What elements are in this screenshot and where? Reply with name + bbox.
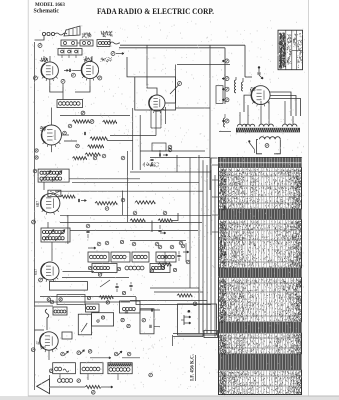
vertical wire x140.2 — [139, 115, 141, 170]
oscillator coil box B1 — [88, 252, 109, 262]
wire bus A drop at x245 — [244, 45, 246, 77]
wire y128 pins — [151, 127, 161, 129]
speaker line to right — [50, 386, 86, 388]
bus bend 2 — [130, 301, 207, 334]
filter choke L10 — [260, 137, 281, 140]
output transformer box 2 — [80, 363, 103, 374]
long bus y178 — [69, 178, 140, 180]
svg-text:MODEL 1663: MODEL 1663 — [35, 3, 65, 8]
terminal bus contact 4 — [225, 98, 229, 102]
capacitor C9 and arrow — [150, 158, 153, 160]
ganged link dashed — [77, 42, 80, 44]
wire R15 right — [172, 213, 178, 221]
terminal above R15 — [163, 211, 167, 215]
terminal above R14 — [133, 211, 137, 215]
capacitor C19 pair — [149, 325, 151, 328]
terminal mid x170 — [168, 145, 172, 149]
wire V3 pin 2 — [155, 111, 157, 136]
junction box left of table — [204, 331, 218, 338]
wire long y115 — [60, 115, 130, 117]
trimmer box lower B5 — [92, 264, 117, 273]
wire bottom bus y358 — [122, 357, 140, 359]
scan noise speckle — [31, 20, 305, 390]
terminal row y244 c — [132, 242, 136, 246]
capacitor C8 — [83, 132, 85, 135]
power transformer secondary 1 — [259, 124, 273, 126]
parts table section lines — [219, 167, 302, 169]
tube designator smudge V4 — [40, 126, 46, 131]
vertical bus x199 long — [198, 155, 200, 288]
terminal cluster mr b — [170, 245, 174, 249]
bus bend group — [150, 288, 199, 334]
stamp box FADA service form — [278, 30, 303, 69]
shield box oscillator — [135, 77, 176, 110]
terminal cluster mr d — [186, 260, 190, 264]
terminal arrow row e — [127, 352, 131, 356]
stamp rotated text — [280, 33, 283, 68]
wire into box — [127, 57, 135, 77]
terminal 4 below V2 — [98, 76, 102, 80]
terminal above coil box x85 — [87, 296, 90, 299]
label twin gang cond — [101, 31, 112, 37]
wire bus drop x147 — [146, 45, 148, 77]
tube V2 6D6 IF amplifier — [81, 61, 98, 78]
terminal y268 a — [88, 266, 91, 269]
wire V8 down — [48, 350, 50, 360]
wire x190 long vertical — [189, 158, 191, 289]
terminal y268 d — [150, 269, 153, 272]
terminal y320 x122 — [121, 318, 124, 321]
resistor R4 — [103, 120, 117, 123]
terminal y299 x60 — [59, 298, 62, 301]
wire avc node — [64, 140, 77, 142]
tube V6 rectifier 80 — [251, 86, 270, 105]
terminal 2 below V1 — [61, 79, 65, 83]
terminal row y244 b — [105, 241, 109, 245]
tube designator smudge V6 — [250, 87, 255, 92]
terminal y268 c — [117, 267, 120, 270]
terminal R6 left — [63, 131, 67, 135]
vertical bus x207 long — [206, 165, 208, 301]
resistor R11 — [61, 195, 75, 198]
terminal x88 y226 — [86, 224, 90, 228]
wire drop from R14 — [151, 221, 153, 233]
wire V2 cathode down — [89, 79, 91, 86]
terminal y320 — [142, 318, 146, 322]
wire box top to bus — [147, 77, 157, 95]
band switch bus — [209, 45, 211, 190]
resistor R23 y202 — [135, 201, 155, 204]
tube V5 75 detector — [41, 194, 60, 213]
band switch S3 diagonal — [100, 280, 110, 287]
terminal y268 b — [98, 273, 101, 276]
arrow volume control — [116, 53, 124, 55]
vertical bus x211 — [210, 170, 212, 334]
capacitor C22 — [177, 254, 180, 256]
wire y157 x150-210 — [150, 157, 210, 159]
tube V4 6D6 first detector — [42, 125, 62, 145]
terminal x170 — [168, 148, 172, 152]
capacitor C12 arrow — [77, 199, 79, 202]
wire y172 long — [130, 171, 211, 173]
wire tube V2 grid caps — [85, 56, 87, 61]
arrow AVC to V1 — [64, 69, 69, 71]
terminal under R12 — [105, 207, 109, 211]
capacitor C18 — [150, 308, 152, 311]
terminal y292 — [122, 291, 125, 294]
terminal mid — [81, 111, 85, 115]
resistor R7 — [85, 153, 100, 156]
wire tube V4 cathode — [51, 145, 53, 152]
terminal left bus y157 — [35, 156, 38, 159]
tube V3 6A7 oscillator section — [149, 95, 165, 111]
junction box y313 — [92, 313, 114, 326]
label smudge mid — [143, 162, 159, 167]
terminal voice coil right — [77, 379, 81, 383]
wire V3 pin 4 — [165, 107, 167, 124]
terminal avc — [76, 144, 80, 148]
bus y215 — [60, 214, 211, 216]
wire V7 output right — [63, 271, 95, 273]
box lower-left portion — [140, 309, 154, 334]
resistor R20 speaker line — [85, 385, 100, 388]
wire curvy speaker field — [45, 309, 49, 330]
terminal in tone box — [149, 373, 153, 377]
terminal R3 right — [90, 120, 94, 124]
wire y135 mid — [110, 135, 156, 137]
coil stack x225 — [224, 118, 226, 127]
resistor R22 y297 — [99, 296, 113, 299]
bus y277 — [62, 277, 129, 279]
terminal below detector box — [50, 300, 54, 304]
parts table outer border — [219, 158, 302, 395]
terminal switch S1 — [178, 82, 182, 86]
terminal cluster mr a — [158, 245, 162, 249]
wire bus right top — [177, 64, 230, 66]
capacitor C20 with arrow — [258, 66, 260, 68]
wire top bus A — [120, 44, 245, 46]
wire stage bottom left — [50, 86, 63, 92]
terminal y268 e — [161, 266, 164, 269]
resistor R15 y220b — [158, 219, 172, 222]
capacitor C15 pair — [115, 285, 118, 287]
wire T3 top — [47, 222, 49, 228]
terminal in junction box — [101, 316, 104, 319]
wire y240 mid — [130, 240, 186, 242]
vertical bus x203 long — [202, 160, 204, 292]
terminal below speaker line — [92, 391, 96, 395]
resistor R14 y220 — [130, 219, 145, 222]
wire antenna to speaker horn — [55, 33, 67, 35]
output transformer box 3 with core — [108, 363, 132, 374]
wire stage box left vertical — [67, 215, 69, 244]
parts table band1 split line — [219, 162, 302, 164]
oscillator coil box B3 — [132, 252, 149, 262]
detector output box — [49, 282, 87, 291]
capacitor near x126 — [125, 311, 128, 313]
oscillator coil L1 — [97, 40, 110, 47]
vertical bus x215 — [214, 175, 216, 337]
terminal x123 — [121, 198, 125, 202]
wire T2 down — [43, 182, 45, 190]
small box y294 — [57, 295, 85, 305]
terminal below V8 — [31, 348, 35, 352]
switch S2 power — [248, 140, 250, 142]
resistor R5 — [90, 137, 107, 140]
capacitor C16 pair — [129, 284, 132, 286]
arrow end speaker line — [101, 386, 113, 388]
arrow row line — [90, 357, 111, 359]
cathode resistor R2 — [62, 84, 64, 87]
capacitor C13 — [86, 230, 89, 232]
wire y296 bottom mid — [100, 296, 136, 298]
terminal row y242 extra — [120, 240, 123, 243]
tuning condenser section 1 — [61, 40, 77, 46]
wire second long y140 — [107, 140, 133, 142]
wire bottom left of box — [140, 309, 160, 311]
wire V3 pin 3 — [160, 110, 162, 128]
terminal T3 left — [32, 220, 36, 224]
terminal y268 f — [173, 268, 176, 271]
terminal 3 grid return — [71, 73, 75, 77]
resistor R10 — [73, 157, 87, 160]
terminal arrow row c — [88, 350, 92, 354]
wire T3 to V7 — [51, 242, 53, 261]
bus y222 — [60, 222, 202, 224]
wire top right corner — [245, 76, 252, 78]
oscillator coil box B4 — [156, 252, 176, 262]
svg-text:Schematic: Schematic — [34, 9, 60, 15]
wire top bus B — [119, 47, 225, 49]
wire transformer box drops — [59, 374, 61, 378]
coil lower B6 — [125, 266, 129, 270]
heater coil stack — [234, 80, 236, 93]
wire bus drop x175.5 — [175, 65, 177, 104]
arrow y248 — [88, 247, 96, 249]
coil box small x53 — [53, 307, 67, 315]
capacitor C10 — [158, 153, 160, 156]
terminal below R22 — [106, 301, 109, 304]
resistor R3 — [73, 120, 90, 123]
transformer core bar — [236, 128, 300, 133]
tube designator smudge V2 — [84, 57, 92, 62]
wire rectifier left — [244, 95, 251, 112]
wire cap to V2 — [72, 69, 82, 71]
wire V4 top — [51, 108, 53, 126]
terminal left of transformer — [49, 369, 53, 373]
resistor R19 y296 — [177, 294, 192, 297]
wire y108 right of box — [176, 107, 211, 109]
terminal row y244 a — [97, 242, 101, 246]
ground bus left — [34, 42, 36, 390]
parts table dense text band 5 — [219, 354, 302, 370]
svg-text:I.F. 456 K.C.: I.F. 456 K.C. — [191, 353, 196, 381]
wire speaker top link — [49, 375, 51, 379]
antenna terminals — [42, 32, 45, 35]
terminal 1 below V1 — [33, 76, 37, 80]
vertical wire x132.7 — [132, 108, 134, 170]
svg-text:6B7: 6B7 — [36, 201, 40, 207]
terminal bus contact 1 — [225, 59, 229, 63]
schematic bracket left of table — [211, 158, 218, 235]
wire coil to bus — [110, 42, 120, 44]
wire V1 cathode down — [49, 79, 51, 86]
wire vertical x122.5 — [122, 191, 124, 216]
wire x177 vertical mid — [176, 155, 178, 172]
wire box to table — [173, 336, 203, 338]
wire antenna down leg — [35, 36, 45, 40]
wire rectifier right 3 — [270, 99, 300, 117]
terminal cluster mr c — [181, 244, 185, 248]
switch box tone — [78, 314, 91, 335]
resistor R21 — [158, 263, 171, 266]
tube designator smudge V1 — [40, 57, 48, 62]
coupling coil L2 — [57, 100, 83, 108]
wire grid caps tube V1 — [43, 56, 45, 62]
terminal arrow row b — [77, 351, 81, 355]
terminal under R19 — [193, 302, 197, 306]
capacitor C21 — [163, 255, 166, 257]
tuning condenser section 2 — [80, 40, 93, 46]
wire y348 bottom — [40, 346, 46, 348]
svg-text:FADA RADIO & ELECTRIC CORP.: FADA RADIO & ELECTRIC CORP. — [97, 6, 214, 16]
terminal row y158 — [93, 156, 97, 160]
wire into bottom box — [154, 325, 160, 327]
label smudge near volume — [101, 57, 112, 62]
terminal arrow row a — [61, 352, 65, 356]
parts table column lines — [219, 171, 302, 173]
terminal arrow row d — [114, 352, 118, 356]
terminal y326 x128 — [127, 324, 130, 327]
wire left bottom connections — [35, 329, 45, 331]
wire x172.6 below tone box — [172, 335, 174, 346]
wire stubs into table — [212, 164, 219, 166]
coupling capacitor C5 — [68, 69, 70, 72]
wire L2 up to V1 — [62, 92, 64, 100]
terminal choke — [265, 144, 269, 148]
dot in junction box — [97, 320, 99, 322]
voice coil — [58, 379, 62, 383]
parts table dense text band 2 — [219, 209, 302, 219]
terminal left bus y150 — [35, 149, 38, 152]
bus bend 3 — [136, 297, 211, 305]
wire bus B drop at x225 — [224, 48, 226, 104]
terminal T2 left — [33, 169, 37, 173]
wire vertical x127.4 — [126, 151, 128, 222]
terminal ant — [38, 44, 42, 48]
parts table dense text band 3 — [219, 268, 302, 277]
wire y131 near coil stack — [219, 131, 231, 133]
wire y296 left — [40, 296, 100, 298]
power transformer primary — [238, 124, 247, 126]
terminal row y244 e — [179, 241, 183, 245]
wire box right — [165, 102, 176, 104]
padder stub wires — [61, 55, 63, 58]
wire V4 out right — [62, 134, 70, 136]
padder capacitor block — [58, 49, 82, 56]
coil box mid-bottom x85 — [86, 304, 100, 312]
small box right of V8 — [62, 332, 72, 339]
wire rectifier right 1 — [270, 92, 291, 116]
long bus y191 — [55, 190, 203, 192]
wire y302 left — [35, 301, 131, 303]
parts table text texture — [220, 169, 227, 211]
parts table dense text band 4 — [219, 322, 302, 333]
resistor R12 long — [95, 202, 117, 205]
oscillator coil box B2 — [111, 252, 130, 262]
horn speaker — [64, 26, 80, 36]
output transformer box 1 — [53, 363, 76, 374]
arrow cluster mr — [183, 251, 189, 253]
label dial lamp — [82, 33, 91, 39]
shield cap box V5 — [48, 190, 61, 197]
tube V1 6A7 converter — [41, 62, 58, 79]
terminal near C8 — [68, 124, 72, 128]
terminal bus contact 2 — [225, 77, 229, 81]
wire stage bottom right — [75, 86, 90, 92]
small box left x130 — [120, 301, 141, 313]
resistor R6 — [88, 145, 104, 148]
small box mid x152 — [152, 143, 166, 151]
terminal bus contact 3 — [225, 87, 229, 91]
parts table band hairlines — [221, 158, 302, 370]
bus y230 — [70, 230, 198, 232]
phono jack symbol — [188, 310, 191, 313]
wire cluster vertical x186 — [185, 243, 187, 262]
capacitor drop from R14 — [159, 225, 161, 229]
trimmer box lower B7 — [150, 264, 170, 273]
tube V7 6A7 second detector — [41, 262, 59, 280]
wire V3 pin 1 — [150, 110, 152, 128]
speaker cone — [37, 379, 50, 394]
wire y306 left short — [35, 305, 54, 307]
svg-text:6A7: 6A7 — [34, 269, 38, 275]
terminal y299 x48 — [47, 298, 50, 301]
terminal bus contact 5 — [225, 119, 229, 123]
wire y151 to x205 — [140, 150, 205, 152]
terminal below V7 — [39, 278, 43, 282]
terminal row y244 d — [155, 242, 159, 246]
parts table dense text band 1 — [219, 158, 302, 168]
IF transformer T2 — [38, 169, 69, 182]
long bus y183 — [72, 182, 199, 184]
tube V8 6F6 output — [40, 332, 58, 350]
tone control box — [178, 304, 217, 335]
IF transformer T3 — [41, 228, 70, 242]
small box right of bus — [216, 86, 223, 104]
power transformer secondary 2 — [283, 124, 297, 126]
wire rectifier right 2 — [270, 96, 296, 117]
volume control terminal — [111, 52, 115, 56]
switch S1 — [170, 85, 179, 95]
parts table row lines — [221, 168, 299, 395]
